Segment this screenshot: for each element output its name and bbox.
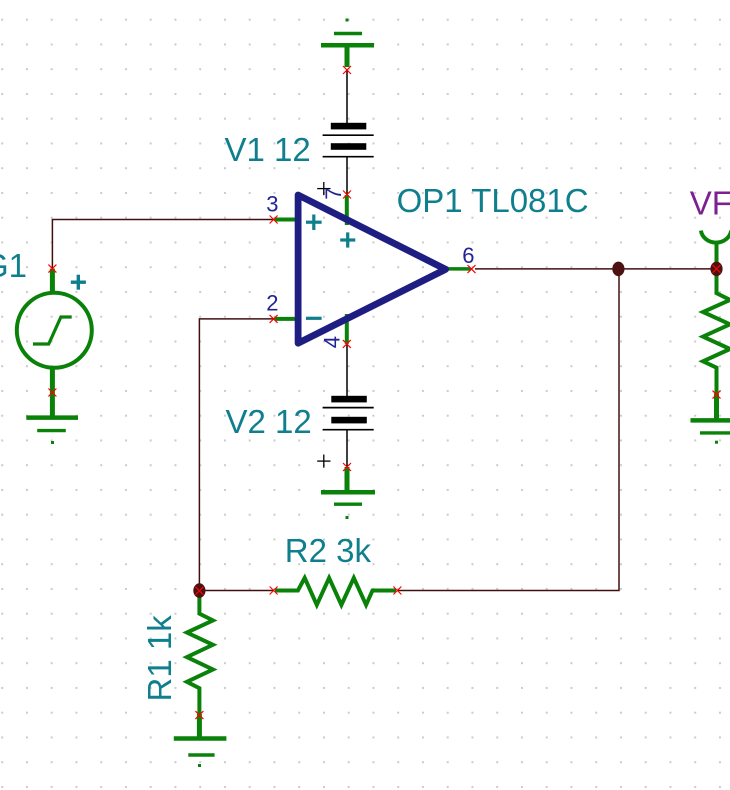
load resistor at VF (vertical) (703, 269, 730, 394)
x pin3 (270, 216, 278, 224)
ground below R1 (174, 714, 227, 767)
voltmeter VF arc (701, 231, 730, 243)
wire pin6 to VF junction (net out) (475, 268, 717, 270)
wire VG1 top to pin3 (net 1) (52, 220, 273, 269)
svg-text:6: 6 (462, 243, 474, 268)
plus mark V1 (317, 188, 330, 190)
junction dot at output (612, 262, 624, 277)
pin2 stub (275, 317, 301, 321)
red x pin marks (48, 66, 720, 719)
opamp minus marker (306, 317, 322, 320)
ground below VG1 (26, 418, 78, 444)
plus mark V2 (317, 460, 330, 462)
wire pin4 to V2 (346, 344, 348, 397)
wire V2 to ground (346, 430, 348, 467)
x R2 right (393, 587, 401, 595)
pin3 stub (275, 218, 301, 222)
battery V2 (317, 396, 374, 468)
x VF resistor bottom (713, 391, 721, 399)
opamp supply plus marker (340, 232, 355, 247)
x top ground (343, 66, 351, 74)
pin6 stub (445, 267, 471, 271)
x pin2 (270, 315, 278, 323)
wire top ground to V1 (346, 70, 348, 124)
svg-text:R1 1k: R1 1k (141, 615, 178, 702)
x VG1 top (48, 265, 56, 273)
x pin7 (343, 191, 351, 199)
x VG1 bottom (48, 389, 56, 397)
resistor R2 (horizontal) (275, 578, 396, 605)
svg-text:2: 2 (266, 291, 278, 316)
battery V1 (317, 123, 374, 195)
pin7 stub (345, 195, 349, 225)
junction dot at R1/R2 (193, 583, 205, 598)
svg-text:V1 12: V1 12 (225, 131, 311, 168)
source VG1 (17, 269, 92, 418)
svg-text:VF: VF (690, 184, 730, 221)
ground below V2 (321, 467, 375, 519)
x R1 bottom (195, 711, 203, 719)
svg-text:R2 3k: R2 3k (285, 532, 372, 569)
svg-text:4: 4 (320, 336, 345, 348)
x V2 bottom (343, 463, 351, 471)
VF wire down to junction (715, 244, 719, 270)
svg-text:7: 7 (321, 188, 346, 200)
x R2 left (270, 587, 278, 595)
wire V1 to pin7 (346, 157, 348, 195)
svg-text:V2 12: V2 12 (226, 403, 312, 440)
wire junction up to pin2 (199, 319, 273, 591)
svg-text:VG1: VG1 (0, 247, 27, 284)
wire R2 left to R1 junction (199, 590, 273, 592)
resistor R1 (vertical) (187, 592, 213, 714)
op-amp OP1 triangle (298, 195, 446, 343)
ground top (inverted) at V1 (321, 19, 374, 68)
x pin4 (343, 340, 351, 348)
svg-text:3: 3 (266, 192, 278, 217)
x R1 top junction (195, 587, 203, 595)
junction dot at VF (710, 262, 722, 277)
ground below VF resistor (691, 394, 730, 444)
pin4 stub (345, 314, 349, 344)
opamp input plus marker (306, 215, 322, 231)
wire output junction down to feedback rail (397, 269, 619, 591)
x VF junction (713, 265, 721, 273)
x pin6 (468, 265, 476, 273)
svg-text:OP1 TL081C: OP1 TL081C (397, 182, 589, 219)
plus mark VG1 (teal) (71, 275, 86, 290)
